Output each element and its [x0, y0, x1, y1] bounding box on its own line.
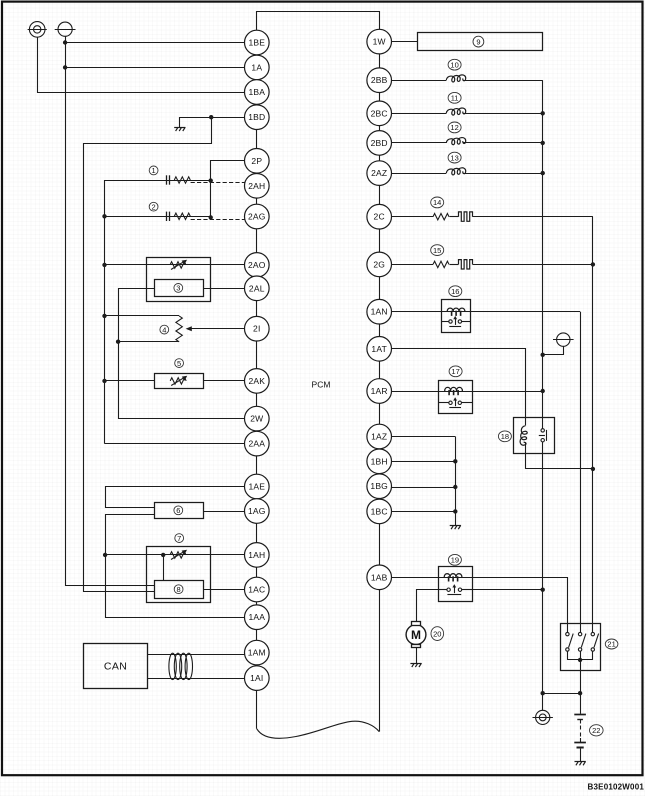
- svg-text:1BA: 1BA: [248, 87, 265, 97]
- svg-text:17: 17: [451, 367, 459, 376]
- svg-text:2BB: 2BB: [371, 75, 388, 85]
- svg-text:CAN: CAN: [104, 661, 127, 673]
- svg-text:1AG: 1AG: [248, 506, 266, 516]
- svg-text:1AT: 1AT: [371, 344, 387, 354]
- svg-text:18: 18: [501, 432, 509, 441]
- svg-text:10: 10: [450, 60, 458, 69]
- svg-text:1W: 1W: [373, 37, 386, 47]
- svg-text:19: 19: [451, 556, 459, 565]
- svg-text:21: 21: [607, 640, 615, 649]
- svg-text:14: 14: [433, 198, 441, 207]
- svg-text:8: 8: [177, 585, 181, 594]
- svg-text:15: 15: [433, 246, 441, 255]
- svg-text:1AA: 1AA: [248, 612, 265, 622]
- svg-text:1BD: 1BD: [248, 112, 265, 122]
- svg-text:2I: 2I: [253, 324, 261, 334]
- svg-text:9: 9: [476, 37, 480, 46]
- svg-text:2P: 2P: [251, 156, 262, 166]
- svg-text:2AL: 2AL: [249, 283, 265, 293]
- svg-text:2AA: 2AA: [248, 439, 265, 449]
- svg-text:B3E0102W001: B3E0102W001: [588, 783, 645, 792]
- svg-text:4: 4: [162, 325, 166, 334]
- svg-text:12: 12: [450, 123, 458, 132]
- svg-text:2G: 2G: [373, 259, 385, 269]
- svg-text:13: 13: [450, 153, 458, 162]
- svg-text:2AO: 2AO: [248, 260, 266, 270]
- svg-text:M: M: [411, 628, 421, 642]
- svg-text:1BE: 1BE: [248, 38, 265, 48]
- svg-text:1BC: 1BC: [371, 506, 388, 516]
- svg-text:1AE: 1AE: [248, 482, 265, 492]
- svg-text:1AN: 1AN: [371, 307, 388, 317]
- svg-text:1AZ: 1AZ: [371, 432, 387, 442]
- svg-text:16: 16: [451, 287, 459, 296]
- svg-text:2: 2: [152, 202, 156, 211]
- svg-text:2W: 2W: [250, 414, 263, 424]
- svg-text:1A: 1A: [251, 62, 262, 72]
- svg-text:5: 5: [177, 359, 181, 368]
- svg-text:2AK: 2AK: [248, 376, 265, 386]
- svg-text:1: 1: [152, 166, 156, 175]
- svg-text:6: 6: [176, 506, 180, 515]
- svg-text:22: 22: [592, 726, 600, 735]
- svg-text:1AM: 1AM: [248, 648, 266, 658]
- svg-text:2AG: 2AG: [248, 212, 266, 222]
- svg-text:7: 7: [177, 534, 181, 543]
- svg-text:11: 11: [451, 94, 459, 103]
- svg-text:3: 3: [176, 284, 180, 293]
- svg-text:2AH: 2AH: [248, 181, 265, 191]
- svg-text:1AB: 1AB: [371, 572, 388, 582]
- svg-text:1BH: 1BH: [371, 456, 388, 466]
- svg-text:2C: 2C: [374, 212, 385, 222]
- svg-text:1AH: 1AH: [248, 550, 265, 560]
- svg-text:1AI: 1AI: [250, 673, 263, 683]
- svg-text:1AR: 1AR: [371, 386, 388, 396]
- svg-text:20: 20: [433, 629, 441, 638]
- svg-text:2AZ: 2AZ: [371, 168, 387, 178]
- svg-text:PCM: PCM: [312, 380, 331, 390]
- svg-text:1BG: 1BG: [370, 481, 388, 491]
- svg-text:1AC: 1AC: [248, 585, 265, 595]
- svg-text:2BC: 2BC: [371, 108, 388, 118]
- svg-text:2BD: 2BD: [371, 138, 388, 148]
